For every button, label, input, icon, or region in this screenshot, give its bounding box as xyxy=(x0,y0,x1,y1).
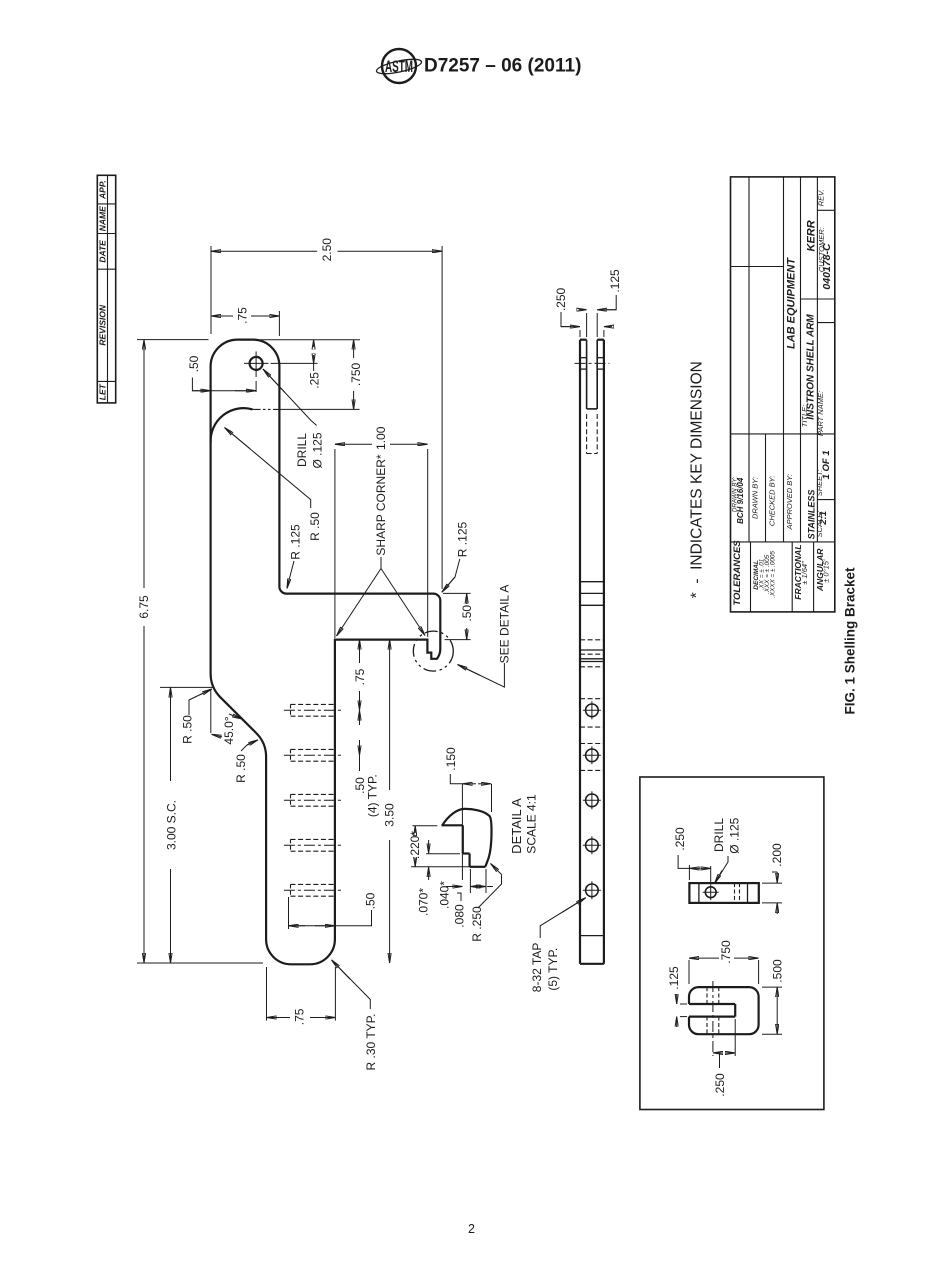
title block cell PART NAME xyxy=(816,391,825,436)
dimension 3.00 S.C. xyxy=(160,687,213,963)
dimension .50 step xyxy=(443,593,474,639)
dimension .750 xyxy=(281,340,363,410)
svg-text:.200: .200 xyxy=(770,843,784,867)
dimension .040 xyxy=(437,869,470,909)
label DRILL .125 clamp xyxy=(712,817,742,883)
svg-text:.070*: .070* xyxy=(417,888,431,916)
svg-text:R .30 TYP.: R .30 TYP. xyxy=(364,1014,378,1071)
dimension .080 xyxy=(453,869,493,928)
svg-text:.50: .50 xyxy=(187,355,201,372)
dimension .50 tap depth xyxy=(289,892,378,929)
part outline main view xyxy=(211,340,441,965)
svg-text:DRILL: DRILL xyxy=(712,818,726,852)
dimension .200 xyxy=(762,843,784,914)
side view outline xyxy=(580,340,604,964)
clamp edge view hole xyxy=(703,884,719,900)
svg-text:2: 2 xyxy=(468,1222,475,1236)
svg-text:.50: .50 xyxy=(460,605,474,622)
dimension .125 side xyxy=(579,269,622,337)
label SEE DETAIL A xyxy=(458,585,512,687)
svg-text:ASTM: ASTM xyxy=(385,57,413,76)
label R .50 slot arc xyxy=(225,428,323,541)
svg-text:REVISION: REVISION xyxy=(97,304,107,345)
label DRILL .125 xyxy=(263,369,324,469)
drilled hole main view xyxy=(244,351,269,392)
svg-text:DRILL: DRILL xyxy=(295,433,309,467)
svg-text:.040*: .040* xyxy=(437,881,451,909)
svg-text:± 1/64": ± 1/64" xyxy=(800,561,809,585)
title block cell SCALE xyxy=(815,511,829,538)
svg-text:.250: .250 xyxy=(554,287,568,311)
side view hidden lines xyxy=(580,640,604,771)
detail box frame xyxy=(640,777,824,1110)
svg-text:SEE DETAIL A: SEE DETAIL A xyxy=(498,585,512,664)
title block cell STAINLESS xyxy=(806,490,816,540)
side view tapped hole 5 xyxy=(583,881,601,899)
svg-text:2:1: 2:1 xyxy=(818,511,829,526)
label 8-32 TAP xyxy=(530,898,586,992)
clamp face view xyxy=(689,987,759,1034)
svg-text:.150: .150 xyxy=(444,747,458,771)
title block cell APPROVED BY xyxy=(785,474,794,531)
svg-text:.250: .250 xyxy=(713,1073,727,1097)
dimension .250 slot xyxy=(713,1019,735,1097)
title block cell DECIMAL xyxy=(753,551,777,598)
dimension .50 (4) TYP. xyxy=(353,710,379,817)
svg-text:DETAIL A: DETAIL A xyxy=(509,798,524,854)
ASTM logo xyxy=(375,49,422,83)
label R .125 right xyxy=(442,521,470,592)
clamp face hidden hole xyxy=(707,981,719,1056)
svg-text:STAINLESS: STAINLESS xyxy=(806,490,816,540)
svg-text:SHARP CORNER*: SHARP CORNER* xyxy=(374,454,388,555)
label SHARP CORNER xyxy=(337,454,426,636)
tapped hole 3 xyxy=(284,794,344,806)
svg-text:DATE: DATE xyxy=(97,240,107,263)
svg-text:KERR: KERR xyxy=(805,220,817,251)
svg-text:REV.: REV. xyxy=(817,189,826,206)
svg-text:1.00: 1.00 xyxy=(374,426,388,450)
label R .125 left xyxy=(287,524,302,589)
tapped hole 2 xyxy=(284,749,344,761)
label R .30 TYP. xyxy=(331,960,378,1071)
svg-text:.XXXX = ± .0005: .XXXX = ± .0005 xyxy=(769,551,776,598)
svg-text:1 OF 1: 1 OF 1 xyxy=(821,450,832,479)
svg-text:.50: .50 xyxy=(363,892,377,909)
dimension .250 clamp xyxy=(673,827,711,884)
title block cell DRAWN BY xyxy=(751,477,760,519)
clamp edge view xyxy=(689,883,758,903)
svg-text:040178-C: 040178-C xyxy=(821,243,833,290)
dimension .150 xyxy=(444,747,492,880)
svg-text:.75: .75 xyxy=(292,1008,306,1025)
dimension .75 holes xyxy=(353,640,367,711)
svg-text:(5) TYP.: (5) TYP. xyxy=(546,948,560,991)
dimension .50 hole xyxy=(187,355,256,390)
dimension .250 side xyxy=(554,287,612,337)
side view tapped hole 2 xyxy=(583,746,601,764)
svg-text:R .50: R .50 xyxy=(180,715,194,744)
page number xyxy=(468,1222,475,1236)
svg-text:.125: .125 xyxy=(608,269,622,293)
tapped hole 1 xyxy=(284,704,344,716)
svg-text:DRAWN BY:: DRAWN BY: xyxy=(751,477,760,519)
key dimension note xyxy=(689,361,706,598)
dimension .125 slot xyxy=(667,966,687,1027)
dimension 2.50 xyxy=(211,238,442,589)
svg-text:.25: .25 xyxy=(307,372,321,389)
svg-text:2.50: 2.50 xyxy=(320,238,334,262)
label R .50 jog lower xyxy=(234,740,258,783)
label R .50 jog upper xyxy=(180,689,211,744)
slot arc R.50 xyxy=(211,408,281,442)
svg-text:R .50: R .50 xyxy=(234,754,248,783)
tapped hole 4 xyxy=(284,839,344,851)
svg-text:.125: .125 xyxy=(667,966,681,990)
svg-text:NAME: NAME xyxy=(97,206,107,231)
svg-text:SCALE 4:1: SCALE 4:1 xyxy=(524,794,538,854)
svg-text:INSTRON SHELL ARM: INSTRON SHELL ARM xyxy=(805,314,816,420)
title block cell DRAWN BY value xyxy=(731,477,745,524)
detail A outline xyxy=(442,809,492,867)
svg-text:(4) TYP.: (4) TYP. xyxy=(365,774,379,817)
title block cell LAB EQUIPMENT xyxy=(786,257,798,349)
svg-text:Ø .125: Ø .125 xyxy=(727,817,741,853)
title block cell SHEET xyxy=(815,450,832,496)
svg-text:.750: .750 xyxy=(349,362,363,386)
side view slot xyxy=(587,340,598,454)
dimension .75 top xyxy=(211,307,279,336)
title block cell TOLERANCES xyxy=(732,540,743,606)
svg-text:± 0°15': ± 0°15' xyxy=(822,559,831,583)
svg-text:APP.: APP. xyxy=(97,180,107,200)
dimension .750 xyxy=(689,940,759,984)
svg-text:.220*: .220* xyxy=(408,831,422,859)
dimension .25 xyxy=(260,340,360,389)
svg-text:.750: .750 xyxy=(719,940,733,964)
svg-text:R .50: R .50 xyxy=(308,512,322,541)
svg-text:6.75: 6.75 xyxy=(137,595,151,619)
svg-text:.250: .250 xyxy=(673,827,687,851)
svg-text:.500: .500 xyxy=(770,959,784,983)
figure caption xyxy=(842,567,857,715)
revision table xyxy=(97,175,115,403)
label R .250 xyxy=(470,864,502,942)
svg-text:.080: .080 xyxy=(453,904,467,928)
side view tapped hole 3 xyxy=(583,791,601,809)
svg-text:LAB EQUIPMENT: LAB EQUIPMENT xyxy=(786,257,798,349)
dimension .75 bottom xyxy=(267,967,336,1025)
svg-text:45.0°: 45.0° xyxy=(222,716,236,744)
svg-text:Ø .125: Ø .125 xyxy=(310,432,324,468)
svg-text:BCH 9/16/04: BCH 9/16/04 xyxy=(736,477,745,524)
dimension 3.50 xyxy=(383,640,397,963)
svg-text:.75: .75 xyxy=(353,668,367,685)
svg-text:APPROVED BY:: APPROVED BY: xyxy=(785,474,794,531)
side view edge lines xyxy=(580,582,604,936)
label DETAIL A xyxy=(509,794,538,854)
dimension .070 xyxy=(417,840,461,916)
title block cell CHECKED BY xyxy=(768,476,777,527)
svg-text:8-32 TAP: 8-32 TAP xyxy=(530,943,544,993)
svg-text:R .125: R .125 xyxy=(288,524,302,560)
detail circle xyxy=(413,631,453,671)
dimension .220 xyxy=(408,826,470,867)
svg-text:TOLERANCES: TOLERANCES xyxy=(732,540,743,606)
title block cell ANGULAR xyxy=(815,548,830,592)
svg-text:3.00 S.C.: 3.00 S.C. xyxy=(164,800,178,850)
title block cell FRACTIONAL xyxy=(793,544,809,599)
header document number xyxy=(424,56,581,77)
svg-text:FIG. 1 Shelling Bracket: FIG. 1 Shelling Bracket xyxy=(842,567,857,715)
svg-text:* - INDICATES KEY DIMENSION: * - INDICATES KEY DIMENSION xyxy=(689,361,706,598)
side view tapped hole 1 xyxy=(583,701,601,719)
dimension .500 xyxy=(762,959,784,1034)
svg-text:CHECKED BY:: CHECKED BY: xyxy=(768,476,777,527)
tapped hole 5 xyxy=(284,884,344,896)
dimension 1.00 xyxy=(335,426,428,638)
svg-text:PART NAME:: PART NAME: xyxy=(816,391,825,436)
svg-text:LET: LET xyxy=(97,383,107,400)
svg-text:R .125: R .125 xyxy=(455,521,469,557)
side view tapped hole 4 xyxy=(583,836,601,854)
side view hole edge ticks xyxy=(575,358,610,369)
dimension 6.75 xyxy=(137,340,263,963)
svg-text:R .250: R .250 xyxy=(470,906,484,942)
svg-text:3.50: 3.50 xyxy=(383,803,397,827)
title block cell REV xyxy=(817,189,826,206)
svg-text:D7257 – 06 (2011): D7257 – 06 (2011) xyxy=(424,56,581,77)
title block cell TITLE xyxy=(800,314,816,428)
revision table labels xyxy=(97,180,107,400)
title block grid xyxy=(731,177,835,612)
title block cell KERR xyxy=(805,220,817,251)
title block cell CUSTOMER xyxy=(817,227,833,289)
angle 45.0 xyxy=(211,690,242,745)
svg-text:.75: .75 xyxy=(235,307,249,324)
